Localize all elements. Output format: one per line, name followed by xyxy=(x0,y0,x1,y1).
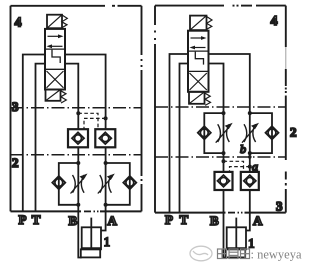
svg-text:T: T xyxy=(32,212,41,227)
wire B below bus to cylinder (left panel) xyxy=(78,211,81,257)
junction dots left assembly xyxy=(76,161,80,165)
spring (top, right panel) xyxy=(207,17,212,30)
pilot operated check valve right (right panel) xyxy=(241,172,259,190)
cylinder 1 (right panel) xyxy=(226,218,246,258)
throttle valve (left assembly, left panel) xyxy=(71,174,88,194)
check valve in bypass (right assembly, right panel) xyxy=(266,126,279,139)
check valve in bypass (left assembly, right panel) xyxy=(198,126,211,139)
wire B section3 to bus (left panel) xyxy=(77,147,79,211)
pilot line from A to left check (dashed, right panel) xyxy=(230,167,250,172)
wire A section3 to bus (left panel) xyxy=(105,147,107,211)
flow control left assembly loop (left panel) xyxy=(59,163,79,205)
watermark text xyxy=(218,248,302,262)
svg-text:A: A xyxy=(253,213,263,228)
svg-text:A: A xyxy=(108,213,118,228)
spring (bottom, left panel) xyxy=(61,91,67,103)
wire T (left panel) xyxy=(36,64,46,212)
svg-text:P: P xyxy=(165,212,173,227)
solenoid (top, right panel) xyxy=(190,16,207,31)
wire A vertical (left panel) xyxy=(65,55,106,130)
wire B vertical (left panel) xyxy=(65,64,78,130)
svg-text:P: P xyxy=(19,212,27,227)
svg-text:3: 3 xyxy=(12,99,19,114)
svg-text:4: 4 xyxy=(271,14,278,29)
svg-text:2: 2 xyxy=(12,155,19,170)
wire P (left panel) xyxy=(23,55,45,212)
section divider 3/2 (left panel) xyxy=(11,154,142,156)
cylinder 1 (left panel) xyxy=(81,218,101,258)
junction node on B pilot (left panel) xyxy=(76,111,80,115)
wire B below bus to cylinder (right panel) xyxy=(224,213,227,258)
svg-text:: newyeya: : newyeya xyxy=(251,248,302,262)
valve position 2 (neutral) jog xyxy=(52,50,60,63)
pilot operated check valve left (right panel) xyxy=(215,172,233,190)
throttle valve (left assembly, right panel) xyxy=(216,123,233,143)
svg-text:2: 2 xyxy=(290,125,297,140)
flow control left assembly loop (right panel) xyxy=(204,113,223,153)
svg-text:1: 1 xyxy=(104,235,110,249)
junction node on A pilot (left panel) xyxy=(104,116,108,120)
svg-text:B: B xyxy=(69,213,78,228)
wire B section3 to bus (right panel) xyxy=(223,190,225,213)
wire A below bus to cylinder (right panel) xyxy=(246,213,250,231)
directional valve U1 body (left panel) xyxy=(45,29,65,90)
valve position 3 crossed xyxy=(47,71,64,88)
section divider 4/2 (right panel) xyxy=(155,106,286,108)
junction node on A line at divider (right panel) xyxy=(248,155,252,159)
bottom bus line (left panel) with chain gap between B and A xyxy=(11,210,142,212)
manifold block border (right panel, chain line) xyxy=(155,6,286,213)
pilot line from A to left check (dashed) xyxy=(84,118,106,129)
pilot operated check valve right (left panel) xyxy=(95,129,115,147)
valve position 2 (neutral) jog (right panel) xyxy=(195,52,203,65)
flow control right assembly loop (right panel) xyxy=(250,113,272,153)
check valve in bypass (right assembly, left panel) xyxy=(123,176,136,189)
wire P (right panel) xyxy=(170,54,189,213)
junction node b on B line (right panel) xyxy=(222,159,226,163)
section divider 2/3 (right panel) xyxy=(155,156,286,158)
throttle valve (right assembly, left panel) xyxy=(98,174,115,194)
valve position 1 arrows (right panel) xyxy=(190,36,207,49)
pilot line from B to right check (dashed, right panel) xyxy=(224,161,244,172)
spring (top, left panel) xyxy=(62,15,68,28)
svg-text:B: B xyxy=(210,213,219,228)
throttle valve (right assembly, right panel) xyxy=(242,123,259,143)
wire A section3 to bus (right panel) xyxy=(249,190,251,213)
watermark icon xyxy=(190,246,212,261)
svg-text:T: T xyxy=(180,212,189,227)
pilot operated check valve left (left panel) xyxy=(68,129,88,147)
pilot line from B to right check (dashed) xyxy=(78,113,98,129)
junction node a on A line (right panel) xyxy=(248,165,252,169)
check valve in bypass (left assembly, left panel) xyxy=(52,176,65,189)
valve position 3 crossed (right panel) xyxy=(190,73,207,90)
wire B vertical (right panel) xyxy=(209,64,224,173)
solenoid (bottom, left panel) xyxy=(46,90,61,101)
wire T (right panel) xyxy=(180,64,189,213)
svg-text:b: b xyxy=(240,142,246,156)
wire A vertical (right panel) xyxy=(209,54,250,172)
solenoid (top, left panel) xyxy=(47,15,62,29)
svg-text:3: 3 xyxy=(276,199,283,214)
manifold block border (left panel, chain line) xyxy=(11,6,142,212)
flow control right assembly loop (left panel) xyxy=(106,163,130,205)
solenoid (bottom, right panel) xyxy=(189,92,205,104)
section divider 4/3 (left panel) xyxy=(11,107,142,109)
bottom bus line (right panel) with chain gap between B and A xyxy=(155,212,286,214)
valve position 1 arrows xyxy=(47,34,64,48)
directional valve body (right panel) xyxy=(188,31,209,92)
svg-text:a: a xyxy=(252,160,258,174)
spring (bottom, right panel) xyxy=(205,93,211,105)
svg-text:4: 4 xyxy=(15,16,22,31)
wire A below bus to cylinder (left panel) xyxy=(101,211,106,230)
